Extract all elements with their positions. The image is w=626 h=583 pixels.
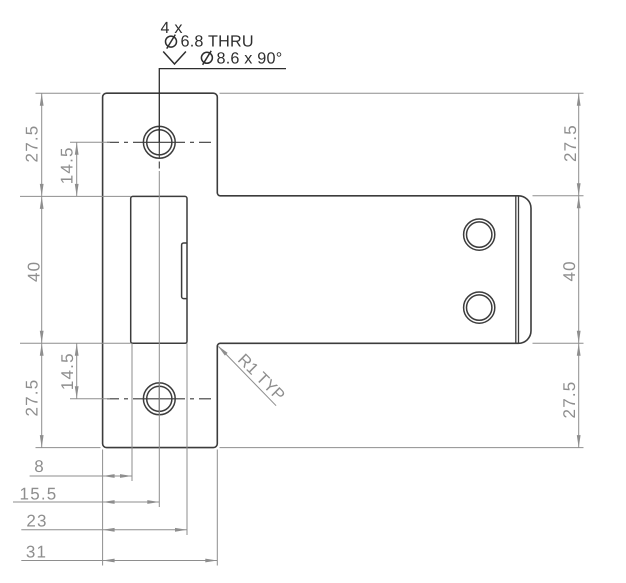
svg-text:14.5: 14.5	[58, 352, 77, 390]
svg-text:8: 8	[34, 457, 45, 476]
dimension lines gray	[13, 93, 579, 560]
centerline H1 horizontal	[107, 141, 211, 143]
ext right top edge	[220, 92, 584, 94]
arrowheads	[40, 93, 581, 562]
tangent edge lines at rounded right end	[515, 196, 517, 343]
pocket rectangle	[131, 196, 187, 343]
hole H3 arm upper	[464, 219, 495, 250]
svg-text:27.5: 27.5	[22, 125, 41, 163]
centerline H1 vertical below	[158, 126, 160, 169]
svg-text:40: 40	[560, 260, 579, 281]
svg-text:15.5: 15.5	[20, 484, 58, 503]
dim line 8	[30, 475, 132, 477]
svg-text:4 x: 4 x	[161, 19, 183, 37]
diameter symbol 1	[166, 35, 177, 49]
ext vertical x=217.3 stem right	[216, 450, 218, 566]
ext right arm bottom	[533, 342, 584, 344]
R1 arrow	[218, 346, 228, 356]
ext left pocket top	[20, 195, 131, 197]
svg-text:23: 23	[26, 512, 47, 531]
14.5 top arrows	[75, 142, 79, 155]
svg-text:27.5: 27.5	[22, 379, 41, 417]
hole H4 arm lower	[464, 292, 495, 323]
svg-text:6.8 THRU: 6.8 THRU	[181, 33, 254, 51]
15.5 arrows	[103, 500, 115, 504]
callout leader	[159, 69, 286, 143]
ext vertical x=187 pocket right	[186, 343, 188, 535]
centerline H2 horizontal	[107, 398, 211, 400]
dim line 23	[21, 529, 187, 531]
ext right arm top	[533, 195, 584, 197]
centerline H2 vertical	[158, 383, 160, 415]
31 arrows	[103, 559, 115, 563]
right main arrows	[577, 93, 581, 106]
svg-text:27.5: 27.5	[560, 381, 579, 419]
23 arrows	[103, 528, 115, 532]
tab inside pocket	[182, 243, 187, 299]
ext vertical x=132 pocket left	[131, 343, 133, 481]
ext left pocket bottom	[20, 342, 131, 344]
ext left top edge	[36, 92, 101, 94]
dim line right main	[578, 93, 580, 447]
8 arrows	[103, 474, 115, 478]
diameter symbol 2	[201, 51, 212, 65]
hole H2 bottom (counterbored)	[143, 383, 175, 415]
ext vertical x=159.3 hole centers	[158, 171, 160, 507]
hole H1 top (counterbored)	[143, 126, 175, 158]
svg-text:14.5: 14.5	[57, 146, 76, 184]
dim line 31	[21, 560, 217, 562]
ext right bottom edge	[220, 447, 584, 449]
svg-text:27.5: 27.5	[561, 124, 580, 162]
svg-text:8.6 x 90°: 8.6 x 90°	[217, 49, 283, 67]
part outline	[103, 93, 531, 447]
dim line left 14.5 top	[76, 142, 78, 196]
ext H1 center left	[70, 141, 110, 143]
svg-text:31: 31	[26, 542, 47, 561]
extension lines gray	[20, 93, 584, 565]
ext left bottom edge	[36, 447, 101, 449]
svg-text:40: 40	[24, 261, 43, 282]
14.5 bottom arrows	[75, 343, 79, 356]
countersink symbol	[163, 52, 186, 65]
leader R1	[219, 347, 277, 406]
dim line left 14.5 bottom	[76, 343, 78, 399]
dim line left main	[41, 93, 43, 447]
dim line 15.5	[13, 501, 159, 503]
left main arrows	[40, 93, 44, 106]
ext H2 center left	[70, 398, 110, 400]
ext vertical x=102.6	[102, 450, 104, 566]
